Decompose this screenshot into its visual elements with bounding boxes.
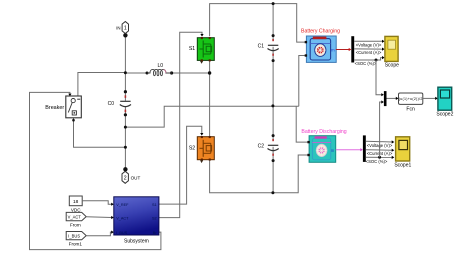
svg-text:(u(1)+u(2))/2: (u(1)+u(2))/2 [399,97,423,101]
svg-text:Scope1: Scope1 [394,163,411,169]
svg-text:<SOC (%)>: <SOC (%)> [366,159,388,164]
svg-text:C2: C2 [258,144,265,150]
svg-text:S1: S1 [189,46,195,52]
svg-text:S1: S1 [152,203,157,207]
svg-text:Scope: Scope [385,63,399,69]
svg-text:Scope2: Scope2 [436,111,453,117]
svg-text:OUT: OUT [131,175,141,180]
svg-text:2: 2 [124,175,127,181]
svg-text:Battery Discharging: Battery Discharging [301,129,346,135]
svg-text:<Voltage (V)>: <Voltage (V)> [356,42,382,47]
svg-text:Battery Charging: Battery Charging [301,29,340,35]
svg-text:I_BUS: I_BUS [116,231,127,235]
svg-text:V_ACT: V_ACT [116,217,129,221]
svg-text:Subsystem: Subsystem [124,239,149,245]
svg-text:18: 18 [73,199,79,205]
svg-text:From: From [70,223,81,228]
svg-text:S2: S2 [152,217,157,221]
svg-text:1: 1 [124,26,127,32]
svg-text:I_BUS: I_BUS [68,233,80,238]
svg-text:m: m [331,148,335,153]
svg-text:Breaker: Breaker [45,105,64,111]
svg-text:<Current (A)>: <Current (A)> [356,50,382,55]
svg-text:V_REF: V_REF [116,203,129,207]
svg-text:V_ACT: V_ACT [68,214,82,219]
svg-text:C0: C0 [108,101,115,107]
svg-text:<SOC (%)>: <SOC (%)> [355,61,377,66]
svg-text:Fcn: Fcn [406,106,415,112]
svg-text:VDC: VDC [71,207,81,212]
svg-text:m: m [331,47,335,52]
svg-text:L0: L0 [158,63,164,69]
svg-text:C1: C1 [258,44,265,50]
svg-text:From1: From1 [69,242,83,247]
svg-text:S2: S2 [189,145,195,151]
svg-text:IN: IN [116,26,120,31]
